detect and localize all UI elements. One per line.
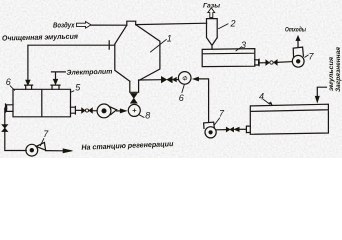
pump 7 volute casing: [36, 142, 45, 150]
wire: tank 3 to valve: [259, 62, 266, 64]
svg-text:6: 6: [179, 93, 184, 103]
wire: electrolyte line: [52, 72, 66, 80]
pump 7 inner hub: [30, 148, 34, 152]
pump 7 (waste pump, top right): [292, 55, 304, 67]
tank 3 (horizontal vessel): [202, 49, 255, 67]
pump inner hub: [102, 109, 106, 113]
wire: vessel bottom to valve: [139, 79, 162, 81]
wire: gas line vessel to cyclone: [136, 23, 207, 24]
wire: drop to regeneration pump: [5, 108, 26, 150]
valve (vertical, vessel drain): [130, 93, 137, 103]
arrow: waste up: [296, 36, 300, 41]
pump 7 inner hub: [209, 131, 213, 135]
svg-text:Электролит: Электролит: [66, 69, 112, 77]
arrow: into flow device: [193, 77, 199, 81]
valve (vertical, drain): [2, 125, 8, 132]
nozzle: tank 3 right outlet: [255, 59, 259, 65]
svg-text:7: 7: [43, 129, 49, 139]
svg-text:5: 5: [75, 83, 81, 93]
svg-text:1: 1: [167, 34, 172, 44]
block arrow: gases up: [208, 8, 215, 18]
tank 4 (dirty emulsion storage): [250, 104, 328, 134]
pump volute casing: [109, 107, 116, 115]
nozzle: tank 5/6 left side: [6, 104, 14, 112]
label 6 leader: [10, 86, 14, 90]
nozzle: tank left-top: [25, 85, 33, 89]
arrow: into tank 4: [315, 96, 319, 102]
flow device Ф (item 6): [178, 72, 191, 85]
label 4 arrowhead: [269, 102, 273, 106]
svg-text:3: 3: [241, 40, 246, 50]
svg-text:6: 6: [6, 77, 11, 87]
wire: tank to feed valve: [76, 109, 82, 111]
svg-text:7: 7: [309, 52, 315, 62]
arrow: toward pump: [234, 127, 239, 131]
svg-text:8: 8: [145, 111, 150, 121]
pump (feed pump): [97, 104, 111, 118]
svg-text:2: 2: [230, 18, 236, 28]
label 7 leader (regeneration pump): [40, 139, 43, 146]
valve (tank 3 outlet): [266, 60, 277, 65]
wire: pump 7 discharge up: [297, 41, 299, 48]
pump 7 (feed pump, bottom middle): [205, 127, 216, 138]
block arrow: air inlet: [77, 22, 92, 29]
svg-text:Очищенная эмульсия: Очищенная эмульсия: [2, 32, 79, 43]
nozzle: tank right-top: [51, 85, 60, 89]
wire: dirty emulsion inlet: [317, 87, 326, 96]
nozzle: tank 4 left: [246, 126, 250, 133]
wire: purified emulsion line: [28, 45, 109, 80]
flange: vessel 1 left nozzle: [109, 41, 115, 49]
svg-text:Воздух: Воздух: [53, 21, 75, 29]
valve (tank 4 outlet): [226, 127, 233, 131]
wire: pump to regeneration: [46, 150, 63, 152]
svg-text:Загрязненная: Загрязненная: [335, 47, 342, 92]
ejector 8 inner mark: [133, 109, 136, 112]
arrow: toward vessel 1: [172, 77, 176, 81]
pump 7 volute casing: [204, 122, 215, 128]
label 7 leader (waste pump): [305, 55, 308, 57]
valve (recycle): [161, 77, 172, 83]
label 1 leader: [151, 40, 167, 53]
cyclone 2: [207, 19, 218, 50]
wire: air line to vessel neck: [91, 24, 127, 26]
vessel 1 bottom neck: [130, 81, 139, 93]
wire: to tank 4 nozzle: [239, 128, 246, 130]
svg-text:4: 4: [259, 91, 264, 101]
label 4 leader: [264, 100, 270, 105]
arrow: to regeneration station: [63, 149, 73, 153]
wire: arrow to flow device: [176, 79, 178, 81]
wire: pump suction to valve: [216, 129, 226, 131]
label 5 leader: [71, 91, 74, 92]
valve handwheel circle: [270, 61, 273, 64]
label 3 leader: [236, 47, 242, 51]
pump 7 volute casing: [293, 47, 303, 58]
label 8 leader: [139, 115, 144, 118]
svg-text:Отходы: Отходы: [285, 25, 306, 33]
arrow: into tank 6 left nozzle: [26, 80, 31, 85]
wire: valve to pump 7 (waste): [277, 61, 292, 64]
label 7 leader (feed pump): [215, 118, 220, 125]
svg-text:Ф: Ф: [182, 75, 187, 82]
valve (feed): [82, 108, 93, 113]
wire: pump to ejector 8: [117, 110, 121, 112]
svg-text:7: 7: [219, 108, 225, 118]
label 6 leader (flow device): [182, 85, 184, 93]
pump 7 (regeneration pump, bottom left): [26, 144, 38, 156]
flotation vessel 1 (body outline): [115, 21, 160, 81]
ejector 8: [128, 104, 140, 116]
arrow: into ejector 8: [120, 109, 126, 113]
tank 5/6 (two-compartment collector): [13, 89, 71, 117]
wire: valve to feed pump: [92, 110, 97, 112]
arrow: into tank 5 right nozzle: [53, 79, 58, 84]
wire: feed riser from pump: [199, 79, 209, 123]
pump 7 inner hub: [296, 59, 300, 63]
svg-text:эмульсия: эмульсия: [328, 57, 335, 91]
label 2 leader: [219, 24, 228, 29]
nozzle: tank 5/6 right side: [71, 107, 76, 115]
valve handwheel circle: [85, 109, 88, 112]
svg-text:На станцию регенерации: На станцию регенерации: [81, 139, 174, 152]
